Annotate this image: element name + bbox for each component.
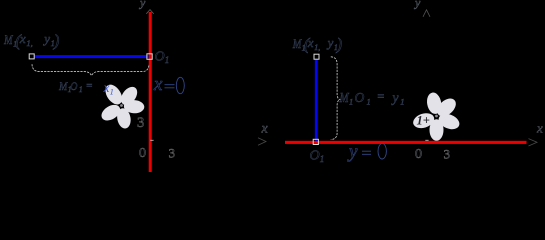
svg-text:O: O [155, 49, 165, 64]
y-axis red line (x = 0) [149, 12, 152, 172]
blue segment M1O1 [34, 55, 149, 58]
svg-text:x: x [536, 121, 543, 136]
x-axis arrowhead (faint) [258, 138, 266, 145]
svg-text:M: M [3, 32, 13, 47]
x arrowhead at right end (faint) [529, 139, 538, 146]
equals sign of x = 0 [165, 85, 175, 88]
point O1 marker (open square) [147, 54, 152, 60]
blue segment M1O1 (vertical) [315, 59, 318, 141]
svg-text:0: 0 [139, 146, 146, 161]
svg-text:1,: 1, [314, 43, 320, 52]
x-axis (black, invisible on black background) [18, 141, 263, 143]
svg-text:1: 1 [165, 55, 170, 65]
label O1 at foot of perpendicular [155, 49, 170, 65]
label M1(x1, y1) [292, 35, 342, 54]
svg-text:y: y [326, 36, 334, 50]
label M1O1 = y1 [339, 89, 405, 106]
svg-text:3: 3 [444, 147, 451, 162]
svg-text:y: y [414, 0, 421, 10]
y-axis arrowhead (faint) [146, 10, 153, 14]
label M1(x1, y1) [3, 31, 59, 50]
svg-text:M: M [292, 37, 302, 51]
right brace along blue segment [331, 57, 341, 140]
zero of y = 0 (tall oval) [378, 143, 386, 159]
svg-text:y: y [42, 31, 50, 46]
svg-text:3: 3 [169, 146, 176, 161]
label y = 0 (name of the red line) [347, 142, 358, 163]
underbrace below blue segment [32, 64, 149, 75]
svg-text:y: y [347, 142, 358, 163]
y-axis (black, invisible) [426, 11, 428, 168]
flower sticker (left) [99, 82, 145, 130]
svg-text:=: = [86, 80, 93, 92]
svg-text:x: x [153, 74, 163, 95]
svg-text:1: 1 [367, 97, 371, 107]
zero of x = 0 (tall oval) [176, 77, 184, 93]
svg-text:M: M [339, 90, 350, 105]
svg-text:3: 3 [137, 115, 144, 131]
svg-text:0: 0 [415, 147, 422, 162]
y-axis arrowhead (faint) [423, 10, 430, 17]
svg-text:1,: 1, [26, 38, 32, 48]
svg-text:1: 1 [400, 97, 404, 107]
point M1 marker (open square) [314, 54, 319, 59]
red line y = 0 (x-axis) [285, 141, 527, 144]
svg-text:O: O [355, 90, 365, 105]
svg-text:1: 1 [110, 87, 114, 97]
flower sticker (right) [411, 91, 461, 140]
svg-text:1: 1 [349, 97, 353, 107]
equals sign of y = 0 [362, 151, 371, 154]
point M1 marker (open square) [29, 54, 34, 59]
svg-text:x: x [261, 122, 269, 137]
svg-text:x: x [307, 36, 314, 50]
svg-text:): ) [336, 35, 343, 54]
svg-text:y: y [139, 0, 146, 10]
label x = 0 (name of the red line) [153, 74, 163, 95]
svg-text:): ) [53, 31, 60, 50]
svg-text:x: x [103, 80, 110, 95]
svg-text:x: x [19, 31, 26, 46]
svg-text:1: 1 [320, 154, 325, 164]
white tick at origin crossing [150, 139, 153, 141]
svg-text:=: = [377, 89, 385, 103]
label M1O1 = (value under flower) [58, 79, 93, 94]
label O1 under foot of perpendicular [310, 149, 325, 165]
svg-text:O: O [70, 79, 77, 93]
svg-text:O: O [310, 149, 320, 164]
svg-text:1: 1 [79, 85, 83, 94]
svg-text:y: y [391, 90, 399, 105]
svg-text:1+: 1+ [417, 114, 430, 128]
white tick at origin crossing [425, 139, 428, 141]
point O1 marker (open square) [313, 139, 318, 144]
